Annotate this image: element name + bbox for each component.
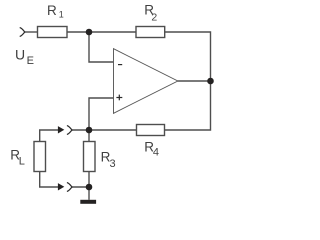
- svg-text:R: R: [47, 3, 57, 18]
- svg-text:4: 4: [153, 146, 159, 158]
- svg-text:U: U: [15, 47, 25, 63]
- svg-text:3: 3: [110, 158, 116, 170]
- svg-text:L: L: [19, 155, 25, 167]
- svg-text:2: 2: [151, 12, 157, 24]
- svg-text:E: E: [27, 55, 34, 67]
- svg-text:1: 1: [59, 9, 64, 19]
